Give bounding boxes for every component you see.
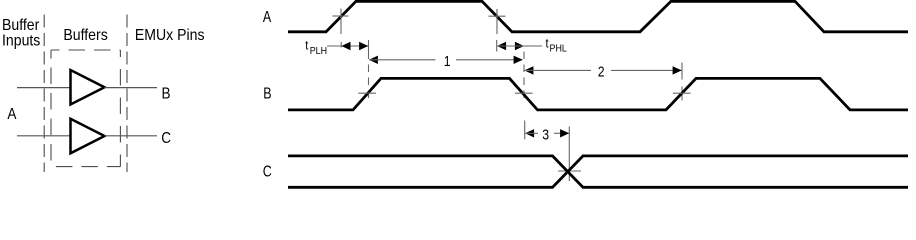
buffer U2 <box>71 119 105 154</box>
tick A falling edge 50% <box>489 9 506 34</box>
tick B second rising edge 50% <box>673 92 691 94</box>
waveform C trace lower-to-upper <box>288 156 908 187</box>
svg-text:B: B <box>162 85 171 102</box>
svg-text:C: C <box>161 130 171 147</box>
tick B first falling edge 50% <box>515 92 533 94</box>
wire input A to buffer U1 <box>17 87 71 89</box>
wire input A to buffer U2 <box>17 135 71 137</box>
svg-text:t: t <box>305 38 309 53</box>
wire buffer U1 output to pin B <box>105 87 158 89</box>
svg-text:1: 1 <box>444 53 451 69</box>
tick A rising edge 50% <box>333 9 349 35</box>
dimension 2 <box>524 63 681 79</box>
buffers dashed box <box>51 50 120 167</box>
svg-text:2: 2 <box>598 63 605 79</box>
svg-text:A: A <box>263 9 272 27</box>
label Buffer Inputs <box>2 16 40 49</box>
guide line to C crossover (x=569.3) <box>568 127 570 182</box>
svg-text:EMUx Pins: EMUx Pins <box>135 26 205 44</box>
svg-text:C: C <box>263 163 272 181</box>
svg-text:t: t <box>546 35 550 50</box>
svg-text:A: A <box>7 106 16 123</box>
dimension 1 <box>369 53 523 69</box>
svg-text:Buffers: Buffers <box>63 26 107 44</box>
tick C crossover 50% <box>558 170 581 172</box>
svg-text:PHL: PHL <box>550 43 568 55</box>
svg-text:3: 3 <box>542 127 549 143</box>
svg-text:Inputs: Inputs <box>2 32 40 50</box>
dimension 3 <box>525 121 570 143</box>
boundary line buffers/emux-pins <box>126 15 128 173</box>
waveform C trace upper-to-lower <box>288 156 908 187</box>
boundary line buffer-inputs/buffers <box>43 15 45 173</box>
buffer U1 <box>71 70 105 105</box>
waveform A trace <box>288 1 908 32</box>
svg-text:PLH: PLH <box>310 45 327 57</box>
waveform B trace <box>288 78 908 110</box>
guide line at B second rise (x=682) <box>681 63 683 101</box>
dimension tPLH <box>305 38 368 57</box>
wire buffer U2 output to pin C <box>105 135 158 137</box>
tick B first rising edge 50% <box>358 92 376 94</box>
svg-text:B: B <box>263 85 271 103</box>
guide line from A rise / B rise (x=368) <box>368 52 370 101</box>
guide line from A fall / B fall (x=524) <box>523 52 525 102</box>
dimension tPHL <box>497 35 568 54</box>
